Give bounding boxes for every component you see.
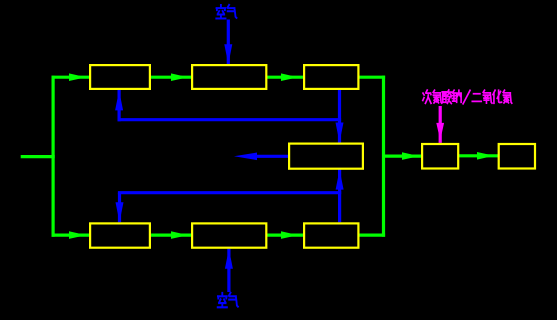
wire: B2 to B3 <box>267 234 303 237</box>
arrow up into box B2 (air) <box>225 249 233 269</box>
arrow into box S1 <box>402 152 419 160</box>
box S2 (clear water tank) <box>499 144 535 169</box>
wire: left header vertical <box>51 76 54 237</box>
wire: B3 to right header <box>359 234 385 237</box>
arrow down into box M top <box>336 123 344 143</box>
wire: dosing line into S1 <box>439 106 442 143</box>
arrow into box B2 <box>171 231 188 239</box>
wire: T1 to T2 <box>151 76 191 79</box>
wire: raw water inlet stub <box>21 155 55 158</box>
label: dosing text 次 <box>423 90 431 103</box>
box B3 (bottom row tank 3) <box>304 223 358 247</box>
arrow into box T1 <box>69 73 86 81</box>
label: bottom air text 气 <box>229 293 238 307</box>
wire: top row feed from header <box>52 76 90 79</box>
wire: B1 to B2 <box>151 234 191 237</box>
box T3 (top row tank 3) <box>304 65 358 89</box>
label: top air text 气 <box>228 5 237 18</box>
box T2 (top row tank 2) <box>192 65 266 89</box>
arrow into box B1 <box>69 231 86 239</box>
arrow down into box B1 <box>116 202 124 222</box>
label: dosing text 钠 <box>452 90 461 102</box>
wire: right header to disinfection box S1 <box>382 155 421 158</box>
arrow into box T3 <box>281 73 298 81</box>
wire: right header vertical <box>382 76 385 237</box>
arrow into box B3 <box>281 231 298 239</box>
label: top air text 空 <box>216 5 225 18</box>
wire: top air line <box>227 20 230 65</box>
arrow down into box T2 (air) <box>224 44 232 64</box>
wire: bottom row feed from header <box>52 234 90 237</box>
arrow into box S2 <box>477 152 494 160</box>
wire: blue riser under T1 <box>117 90 120 121</box>
wire: vent line out of box M <box>248 155 289 158</box>
label: dosing text 二 <box>472 94 481 102</box>
wire: blue drop into B1 <box>118 193 121 223</box>
wire: T3 to right header <box>359 76 385 79</box>
wire: bottom air line <box>227 249 230 292</box>
label: dosing text 氧 <box>483 90 492 103</box>
label: dosing text 氯 <box>503 90 512 103</box>
arrow up into box T1 <box>115 90 123 110</box>
box B1 (bottom row tank 1) <box>90 223 150 247</box>
label: dosing text 酸 <box>442 90 451 103</box>
wire: S1 to S2 <box>459 154 498 157</box>
box M (middle separator) <box>289 144 363 169</box>
arrow down into box S1 (dosing) <box>436 123 444 140</box>
label: dosing text 化 <box>493 90 502 103</box>
label: dosing text 氯 <box>433 90 442 103</box>
box B2 (bottom row tank 2) <box>192 223 266 247</box>
box S1 (dosing contact tank) <box>422 144 458 169</box>
label: bottom air text 空 <box>218 293 227 307</box>
arrow up into box M bottom <box>336 170 344 190</box>
wire: blue upper horizontal run <box>118 118 342 121</box>
wire: blue lower horizontal run <box>118 191 341 194</box>
arrow into box T2 <box>171 73 188 81</box>
box T1 (top row tank 1) <box>90 65 150 89</box>
arrow pointing left from box M <box>234 153 257 161</box>
label: dosing text / <box>463 90 470 103</box>
wire: T2 to T3 <box>267 76 303 79</box>
wire: blue riser from B3 to box M bottom <box>338 169 341 222</box>
wire: blue drop from T3 to middle box M <box>338 90 341 143</box>
